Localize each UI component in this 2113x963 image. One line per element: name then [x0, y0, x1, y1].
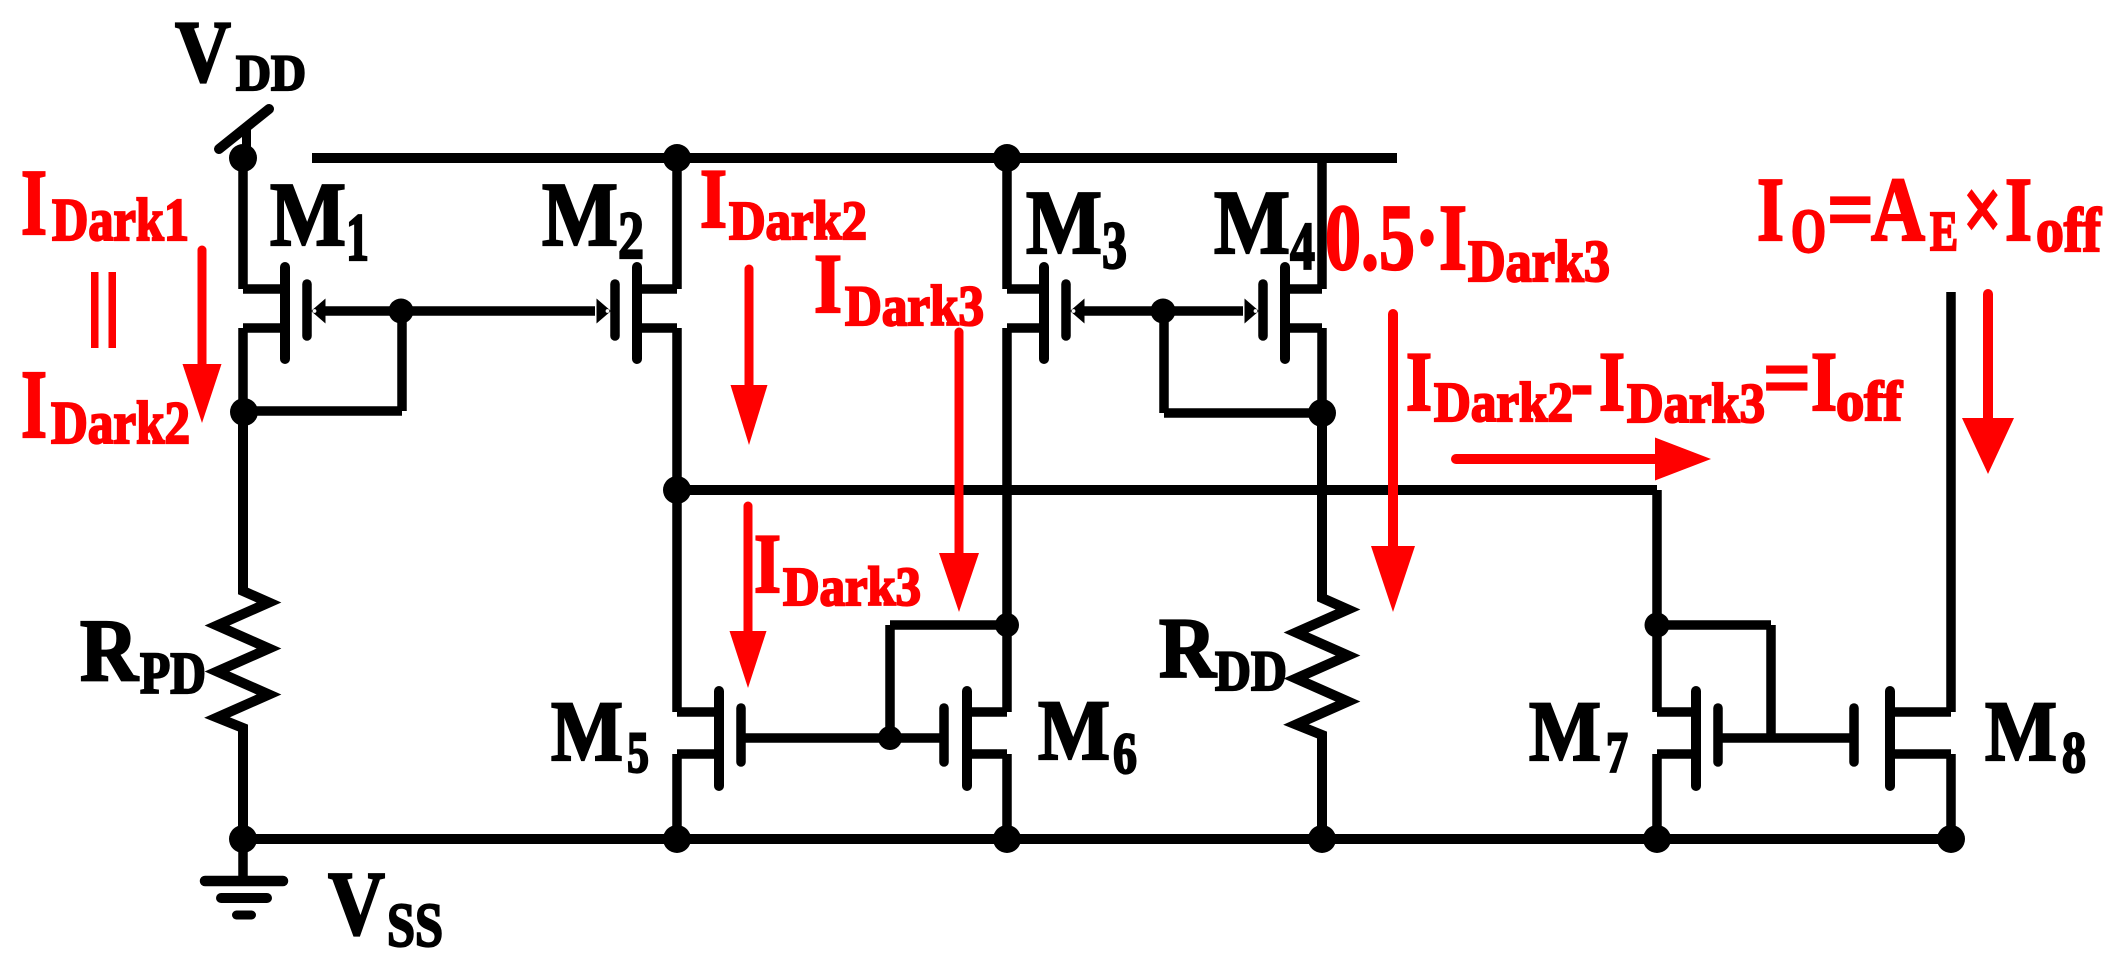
svg-text:=: = — [1827, 159, 1874, 260]
svg-text:SS: SS — [387, 892, 443, 960]
svg-text:Dark2: Dark2 — [729, 190, 867, 251]
svg-text:DD: DD — [236, 46, 306, 102]
svg-text:M: M — [542, 164, 618, 265]
svg-text:4: 4 — [1290, 208, 1315, 284]
svg-text:I: I — [754, 517, 781, 611]
svg-text:I: I — [1599, 335, 1625, 429]
svg-text:=: = — [1763, 331, 1811, 425]
svg-text:off: off — [2036, 197, 2102, 265]
svg-text:I: I — [21, 151, 47, 255]
svg-text:PD: PD — [140, 640, 206, 706]
svg-text:Dark2: Dark2 — [51, 390, 190, 456]
svg-text:I: I — [700, 152, 727, 246]
svg-text:7: 7 — [1606, 720, 1628, 785]
svg-text:I: I — [21, 351, 47, 459]
svg-text:M: M — [270, 164, 346, 265]
svg-text:I: I — [2005, 159, 2032, 260]
svg-text:M: M — [1985, 683, 2057, 779]
svg-text:R: R — [80, 602, 140, 700]
svg-text:V: V — [175, 4, 231, 101]
svg-text:I: I — [1757, 159, 1784, 260]
svg-text:I: I — [1811, 335, 1837, 429]
svg-text:6: 6 — [1113, 721, 1137, 786]
svg-text:O: O — [1791, 198, 1826, 266]
svg-text:Dark3: Dark3 — [845, 275, 984, 338]
svg-text:2: 2 — [618, 197, 644, 273]
svg-text:M: M — [551, 683, 623, 779]
svg-text:0.5·I: 0.5·I — [1325, 186, 1467, 290]
svg-text:5: 5 — [627, 720, 649, 785]
svg-text:Dark3: Dark3 — [1468, 228, 1610, 294]
svg-text:E: E — [1930, 201, 1958, 263]
svg-text:V: V — [328, 853, 385, 954]
svg-text:1: 1 — [346, 199, 369, 275]
svg-text:Dark2: Dark2 — [1434, 372, 1573, 434]
svg-text:M: M — [1038, 682, 1110, 778]
svg-text:3: 3 — [1102, 207, 1127, 283]
svg-text:M: M — [1214, 172, 1290, 273]
svg-text:M: M — [1529, 683, 1601, 779]
svg-text:Dark3: Dark3 — [1627, 373, 1765, 435]
svg-text:8: 8 — [2062, 720, 2086, 785]
svg-text:off: off — [1836, 371, 1903, 433]
svg-text:I: I — [1406, 335, 1432, 429]
svg-text:Dark3: Dark3 — [783, 556, 921, 617]
svg-text:Dark1: Dark1 — [52, 187, 189, 253]
svg-text:×: × — [1963, 159, 2002, 260]
svg-text:M: M — [1026, 172, 1102, 273]
svg-text:R: R — [1159, 600, 1217, 696]
svg-text:-: - — [1571, 335, 1593, 429]
svg-text:DD: DD — [1215, 640, 1287, 703]
svg-text:I: I — [814, 237, 842, 331]
svg-text:A: A — [1871, 159, 1925, 260]
